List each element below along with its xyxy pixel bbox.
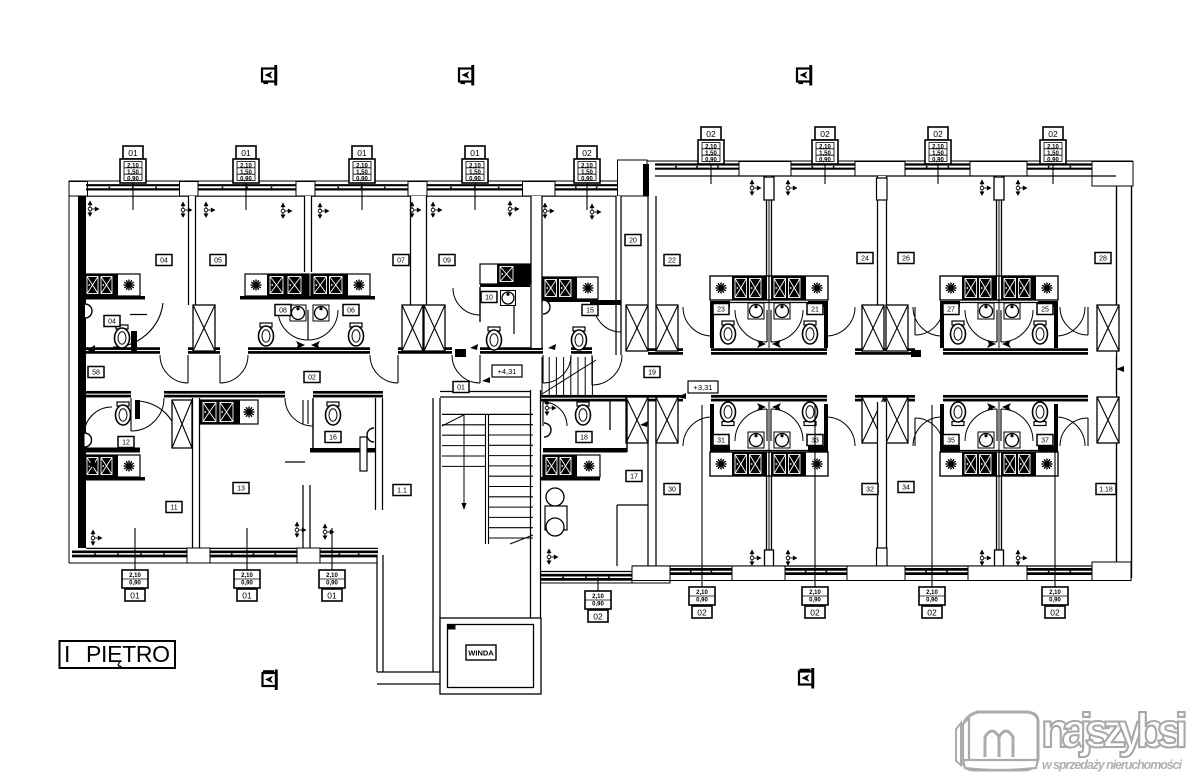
entry door arc L u999 (913, 307, 942, 336)
window pier T4 (523, 182, 556, 197)
ceiling symbol (433,210) (431, 202, 441, 217)
door opening right corridor bottom x1088 (1088, 394, 1116, 403)
svg-text:01: 01 (242, 590, 252, 600)
right exterior wall inner line (1116, 186, 1118, 566)
balcony arrows R u769 (786, 180, 796, 195)
svg-text:PIĘTRO: PIĘTRO (86, 641, 170, 667)
outer wall thin line left wing (69, 181, 621, 563)
svg-text:1,50: 1,50 (469, 170, 481, 176)
door opening corridor top x592 (592, 347, 622, 356)
entry door arc R u999 (1056, 307, 1085, 336)
elevator label WINDA (466, 645, 496, 660)
svg-text:02: 02 (927, 607, 937, 617)
exterior label group bottom right cx815 (802, 405, 828, 618)
entry door arc R low l999 (1056, 417, 1085, 446)
svg-text:+3,31: +3,31 (694, 383, 713, 392)
sink room1 (85, 304, 92, 318)
svg-text:31: 31 (717, 438, 725, 445)
entry door arc L low l769 (683, 417, 712, 446)
sink room12 (85, 433, 92, 447)
window pier RT2 (855, 162, 905, 177)
elevator corner mark (448, 625, 456, 630)
door arc corridor top x220 (220, 355, 248, 383)
bath door arc R u999 (1001, 310, 1033, 342)
bath door arc L low l999 (965, 409, 997, 441)
vent arrow bath12 (87, 460, 95, 468)
corner pier right wing SE (1092, 562, 1131, 581)
kitchen counter room13 (200, 400, 258, 424)
washer circle 1 (546, 488, 564, 506)
bath wall R u999 (1038, 301, 1058, 307)
svg-text:02: 02 (308, 375, 316, 382)
toilet L low l999 (951, 402, 966, 426)
balcony arrows R low l769 (786, 550, 796, 565)
balcony arrows L u769 (750, 180, 760, 195)
left exterior wall (78, 196, 86, 548)
washer circle 2 (546, 518, 564, 536)
kitchen counter unit R low l999 (999, 452, 1058, 476)
balcony arrows R u999 (1016, 180, 1026, 195)
flag symbol bottom 1 (263, 670, 278, 691)
line over counter low l999 (940, 450, 1058, 452)
bottom wall inner line left wing (86, 547, 378, 549)
svg-text:08: 08 (279, 308, 287, 315)
stair right flight treads (489, 425, 534, 538)
svg-text:02: 02 (1048, 129, 1058, 139)
door opening corridor top x543 (543, 347, 571, 356)
svg-text:najszybsi: najszybsi (1041, 705, 1188, 758)
shaft xbox at partition2 (193, 305, 215, 351)
partition 35|37 lower (997, 474, 1002, 570)
window band bottom left W1 (72, 552, 187, 556)
bathroom1 wall stub (131, 331, 137, 352)
kitchen counter unit R u999 (999, 276, 1058, 300)
flag symbol top 3 (797, 65, 812, 86)
bath arc room5 (594, 305, 621, 332)
entry door arc R u769 (826, 307, 855, 336)
bath door arc L u999 (965, 310, 997, 342)
label room 24 (857, 253, 873, 264)
svg-text:1,50: 1,50 (1047, 151, 1059, 157)
bath wall L low l769 (710, 446, 730, 452)
window pier B1 (187, 548, 210, 563)
svg-text:1,50: 1,50 (240, 170, 252, 176)
bath door arc L u769 (735, 310, 767, 342)
kitchen counter room17 (543, 455, 600, 477)
bathroom18 door arc (543, 402, 567, 426)
label corridor 02 (304, 372, 320, 383)
svg-text:1,50: 1,50 (705, 151, 717, 157)
window door jamb low l769 (765, 550, 774, 571)
label bath 18 (576, 432, 592, 443)
door opening right corridor bottom x915 (915, 394, 943, 403)
window pier RB0 (632, 566, 670, 583)
bath side wall R low l769 (824, 404, 828, 452)
svg-text:1,50: 1,50 (356, 170, 368, 176)
stair cut diagonal bottom (510, 535, 533, 544)
balcony arrows L low l999 (980, 550, 990, 565)
bathroom12 bottom wall (82, 448, 140, 453)
sink pair R u769 (774, 303, 790, 319)
balcony arrows L u999 (980, 180, 990, 195)
svg-text:04: 04 (160, 258, 168, 265)
svg-text:2,10: 2,10 (356, 164, 368, 170)
partition 25|27 upper (997, 176, 1002, 278)
svg-text:0,90: 0,90 (129, 581, 141, 587)
flag symbol top 1 (262, 65, 277, 86)
door opening right corridor top x1088 (1088, 348, 1116, 357)
sink room4 (501, 291, 516, 306)
level +4,31 (482, 365, 522, 383)
svg-text:10: 10 (485, 295, 493, 302)
exterior label group top right cx1053 (1040, 127, 1066, 184)
window pier RB1 (732, 566, 785, 581)
window pier RT1 (739, 162, 791, 177)
corridor upper wall right wing (648, 348, 1116, 355)
stair left flight treads (442, 425, 486, 467)
ceiling symbol (325,532) (323, 524, 333, 539)
door opening corridor bottom x285 (285, 390, 313, 399)
kitchen counter unit R u769 (769, 276, 828, 300)
svg-text:0,90: 0,90 (819, 157, 831, 163)
svg-text:0,90: 0,90 (127, 176, 139, 182)
bathroom1 door arc (113, 303, 163, 347)
kitchen counter room1 (84, 274, 140, 296)
elevator shaft outer (440, 618, 541, 694)
tick arrow right wall (1116, 366, 1124, 372)
partition 31|33 lower (767, 474, 772, 570)
bath side wall R u999 (1054, 301, 1058, 348)
bath side wall R u769 (824, 301, 828, 348)
xbox right wall bottom (1097, 397, 1119, 443)
stub wall room13 (303, 485, 310, 548)
bathroom5 wall (590, 300, 621, 305)
sink pair L low l769 (748, 432, 764, 448)
label room 34 (898, 482, 914, 493)
svg-text:05: 05 (214, 258, 222, 265)
door arc corridor bottom x285 (285, 398, 313, 426)
sink pair R low l769 (774, 432, 790, 448)
kitchen counter unit L low l769 (710, 452, 769, 476)
kitchen counter unit L u769 (710, 276, 769, 300)
svg-text:0,90: 0,90 (469, 176, 481, 182)
vent arrows rooms2-3 (296, 341, 320, 349)
svg-text:15: 15 (586, 308, 594, 315)
svg-text:20: 20 (629, 238, 637, 245)
counter outline unit u999 (940, 276, 1058, 300)
window band right wing top W4 (1027, 165, 1092, 169)
svg-text:0,90: 0,90 (356, 176, 368, 182)
line over counter low l769 (710, 450, 828, 452)
corridor upper wall left wing (86, 347, 621, 354)
bath wall L u999 (940, 301, 960, 307)
jamb bottom mid partition (877, 548, 888, 570)
window door jamb u999 (994, 177, 1004, 200)
bath side wall L low l769 (710, 404, 714, 452)
vent arrow bath1 (87, 345, 95, 353)
svg-text:02: 02 (1050, 607, 1060, 617)
label bath 06 (343, 305, 359, 316)
sink room16 (367, 428, 374, 442)
partition room11|13 (193, 398, 200, 552)
right exterior wall outer line (1131, 186, 1133, 578)
partition 22|24 (878, 176, 887, 348)
toilet R low l769 (803, 402, 818, 426)
svg-text:I: I (64, 641, 70, 667)
svg-text:17: 17 (630, 474, 638, 481)
ceiling symbol (283,211) (281, 203, 291, 218)
svg-text:02: 02 (582, 148, 592, 158)
flag symbol top 2 (459, 65, 474, 86)
label bath 04 (104, 316, 120, 327)
door arc corridor top x452 (452, 355, 480, 383)
door opening corridor top x220 (220, 347, 248, 356)
svg-text:01: 01 (128, 148, 138, 158)
vent arrow bath5 (548, 344, 556, 350)
svg-text:01: 01 (327, 590, 337, 600)
label bath R u999 (1037, 304, 1053, 315)
corner pier NW (69, 182, 88, 197)
exterior label group bottom cx247 (234, 528, 260, 601)
vent arrow bath16 (640, 421, 648, 427)
bath door arc L low l769 (735, 409, 767, 441)
counter outline unit low l999 (940, 452, 1058, 476)
window pier T2 (296, 182, 315, 197)
label bath L low l769 (713, 435, 729, 446)
svg-text:18: 18 (580, 435, 588, 442)
toilet room12 (116, 402, 131, 425)
toilet R low l999 (1033, 402, 1048, 426)
ceiling symbol (547,408) (545, 400, 555, 415)
sink pair L u999 (978, 303, 994, 319)
exterior label group bottom cx135 (122, 528, 148, 601)
label room 28 (1095, 253, 1111, 264)
svg-text:07: 07 (397, 258, 405, 265)
xbox lobby right bottom (656, 397, 678, 443)
exterior label group bottom right cx598 (585, 577, 611, 622)
label bath 12 (118, 437, 134, 448)
corridor ext bottom cap (377, 672, 440, 684)
title box I PIETRO (60, 641, 176, 668)
svg-text:0,90: 0,90 (1047, 157, 1059, 163)
label bath L u999 (943, 304, 959, 315)
toilet room2 (259, 323, 274, 346)
svg-text:11: 11 (170, 505, 177, 512)
entry door arc R low l769 (826, 417, 855, 446)
stair cut diagonal top (442, 415, 464, 426)
stair walk line (463, 415, 465, 505)
svg-text:12: 12 (122, 440, 130, 447)
level +3,31 (678, 381, 718, 399)
svg-text:+4,31: +4,31 (498, 367, 517, 376)
label room 32 (862, 484, 878, 495)
sink room5 (543, 300, 550, 314)
label 1.1 (393, 485, 411, 496)
partition mid grey upper2 (998, 176, 1000, 348)
svg-text:1,50: 1,50 (127, 170, 139, 176)
corridor lower wall stairwell (440, 392, 536, 398)
stairwell west wall (433, 398, 440, 678)
junction pier between wings (618, 160, 648, 196)
svg-text:2,10: 2,10 (129, 573, 141, 579)
window band top left wing W4 (427, 185, 523, 189)
label bath R low l769 (807, 435, 823, 446)
kitchen counter room3 (311, 274, 370, 296)
ceiling symbol (206,210) (204, 202, 214, 217)
kitchen counter unit L u999 (940, 276, 999, 300)
bath door arc R u769 (771, 310, 803, 342)
door arc corridor top x160 (160, 355, 188, 383)
bathroom18 right wall (626, 400, 628, 452)
door arc corridor bottom x131 (131, 398, 164, 431)
counter underline rooms2-3 (240, 296, 375, 300)
toilet L low l769 (721, 402, 736, 426)
window door jamb u769 (764, 177, 774, 200)
toilet room4 (487, 327, 502, 350)
bathroom4 door arc (453, 288, 480, 315)
window band bottom right W0 (540, 575, 632, 579)
bathroom12 door arc left (84, 407, 112, 435)
ceiling symbol (545,211) (543, 203, 553, 218)
line under counter u999 (940, 302, 1058, 304)
corridor lower wall right wing (536, 395, 1116, 402)
partition 32|34 lower (878, 402, 887, 570)
svg-text:2,10: 2,10 (592, 594, 604, 600)
label room 11 (166, 502, 182, 513)
exterior label group top right cx711 (698, 127, 724, 184)
svg-text:0,90: 0,90 (240, 176, 252, 182)
svg-text:22: 22 (668, 258, 676, 265)
svg-text:02: 02 (593, 611, 603, 621)
bath side wall L low l999 (940, 404, 944, 452)
svg-text:2,10: 2,10 (926, 590, 938, 596)
bathroom4 east wall (513, 302, 515, 334)
stairwell east wall (531, 390, 541, 621)
partition mid grey upper (768, 176, 770, 348)
bath wall L low l999 (940, 446, 960, 452)
door arc shaft top x915 (915, 307, 943, 335)
mid-landing diagonal (542, 360, 596, 394)
window door jamb low l999 (995, 550, 1004, 571)
window band bottom right W2 (785, 569, 847, 573)
svg-text:32: 32 (866, 487, 874, 494)
door arc shaft bottom x1088 (1060, 418, 1088, 446)
partition room13 right (376, 398, 383, 510)
partition room4|room5 (531, 196, 542, 348)
ceiling symbol (412,210) (410, 202, 420, 217)
bath arc room3 (308, 310, 338, 340)
exterior label group bottom cx332 (319, 528, 345, 601)
door opening right corridor top x683 (683, 348, 711, 357)
exterior label group top right cx938 (925, 127, 951, 184)
label room 22 (664, 255, 680, 266)
svg-text:1,50: 1,50 (932, 151, 944, 157)
toilet room18 (576, 402, 591, 425)
door opening right corridor bottom x683 (683, 394, 711, 403)
corner pier right wing NE (1092, 162, 1133, 187)
bathroom16 left wall (312, 398, 314, 452)
door arc shaft top x1088 (1060, 307, 1088, 335)
toilet R u769 (803, 321, 818, 344)
partition room1|room2 (189, 196, 196, 305)
svg-text:58: 58 (92, 370, 100, 377)
svg-text:2,10: 2,10 (696, 590, 708, 596)
window band bottom left W2 (210, 552, 297, 556)
sink pair L low l999 (978, 432, 994, 448)
label room 19 (644, 367, 660, 378)
svg-text:2,10: 2,10 (819, 145, 831, 151)
svg-text:0,90: 0,90 (696, 598, 708, 604)
window pier T3 (408, 182, 427, 197)
bathroom18 inner wall (609, 400, 611, 430)
partition room2|room3 (305, 196, 312, 272)
jamb top mid partition (877, 178, 888, 200)
door opening corridor top x370 (370, 347, 398, 356)
watermark logo najszybsi (956, 705, 1188, 772)
stair top line (442, 413, 533, 415)
exterior label group top cx133 (120, 146, 146, 210)
window band top left wing W3 (315, 185, 408, 189)
partition mid grey lower (768, 402, 770, 570)
toilet L u999 (951, 321, 966, 344)
label room 05 (210, 255, 226, 266)
bath wall L u769 (710, 301, 730, 307)
svg-text:25: 25 (1041, 307, 1049, 314)
svg-text:16: 16 (329, 435, 337, 442)
svg-text:1,50: 1,50 (819, 151, 831, 157)
svg-text:2,10: 2,10 (809, 590, 821, 596)
door opening corridor top x160 (160, 347, 188, 356)
door opening right corridor top x827 (827, 348, 855, 357)
ceiling symbol (297,530) (295, 522, 305, 537)
bathroom12 wall stub (135, 400, 140, 419)
outer thin line bottom right wing (536, 582, 632, 584)
svg-text:01: 01 (357, 148, 367, 158)
door arc corridor top x543 (543, 355, 571, 383)
bath side wall L u769 (710, 301, 714, 348)
bathroom18 bottom wall (543, 448, 627, 453)
duct room13 (360, 437, 367, 471)
toilet room5 (572, 327, 587, 350)
kitchen counter room11 (84, 455, 140, 477)
door opening corridor bottom x131 (131, 390, 164, 399)
svg-text:0,90: 0,90 (326, 581, 338, 587)
window band bottom right W4 (1027, 569, 1092, 573)
label bath R u769 (807, 304, 823, 315)
xbox mid left top (862, 305, 884, 351)
window pier RB3 (968, 566, 1027, 581)
toilet L u769 (721, 321, 736, 344)
door arc corridor top x370 (370, 355, 398, 383)
exterior label group top cx246 (233, 146, 259, 210)
svg-text:34: 34 (902, 485, 910, 492)
label room 30 (664, 484, 680, 495)
bottom wall inner line right wing (536, 571, 632, 573)
svg-text:0,90: 0,90 (926, 598, 938, 604)
svg-text:01: 01 (130, 590, 140, 600)
ceiling symbol (320,211) (318, 203, 328, 218)
vent arrows low l999 (987, 403, 1011, 411)
window band right wing top W2 (791, 165, 855, 169)
xbox lobby left top (626, 305, 648, 351)
partition mid grey lower2 (998, 402, 1000, 570)
sink room18 (544, 423, 551, 437)
svg-text:w sprzedaży nieruchomości: w sprzedaży nieruchomości (1042, 758, 1183, 772)
vent arrow bath4 (470, 344, 478, 350)
shaft xbox pair right (424, 305, 445, 351)
door arc corridor top x592 (592, 355, 622, 385)
svg-text:24: 24 (861, 256, 869, 263)
